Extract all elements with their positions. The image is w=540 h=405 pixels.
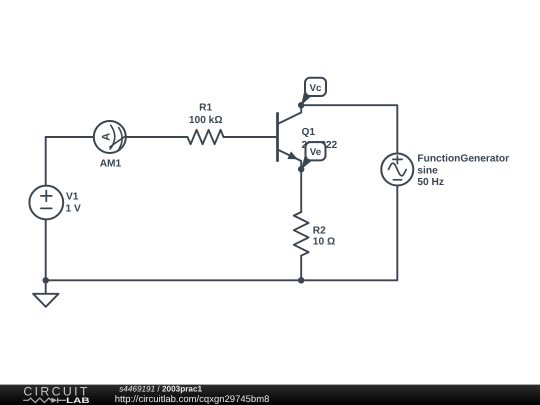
svg-text:V1: V1: [66, 192, 79, 203]
svg-text:LAB: LAB: [66, 396, 90, 405]
svg-text:Ve: Ve: [310, 147, 322, 158]
svg-text:50 Hz: 50 Hz: [417, 177, 444, 188]
svg-text:s4469191 / 2003prac1: s4469191 / 2003prac1: [119, 384, 202, 393]
svg-text:sine: sine: [417, 166, 438, 177]
svg-text:R2: R2: [313, 225, 326, 236]
svg-text:FunctionGenerator: FunctionGenerator: [417, 153, 509, 164]
svg-text:100 kΩ: 100 kΩ: [189, 115, 223, 126]
svg-text:Vc: Vc: [310, 83, 323, 94]
svg-text:AM1: AM1: [100, 158, 122, 169]
svg-text:A: A: [100, 133, 112, 141]
svg-text:10 Ω: 10 Ω: [313, 236, 335, 247]
svg-text:R1: R1: [199, 103, 212, 114]
svg-text:1 V: 1 V: [66, 204, 81, 215]
svg-text:Q1: Q1: [302, 127, 316, 138]
svg-text:http://circuitlab.com/cqxgn297: http://circuitlab.com/cqxgn29745bm8: [115, 394, 270, 405]
